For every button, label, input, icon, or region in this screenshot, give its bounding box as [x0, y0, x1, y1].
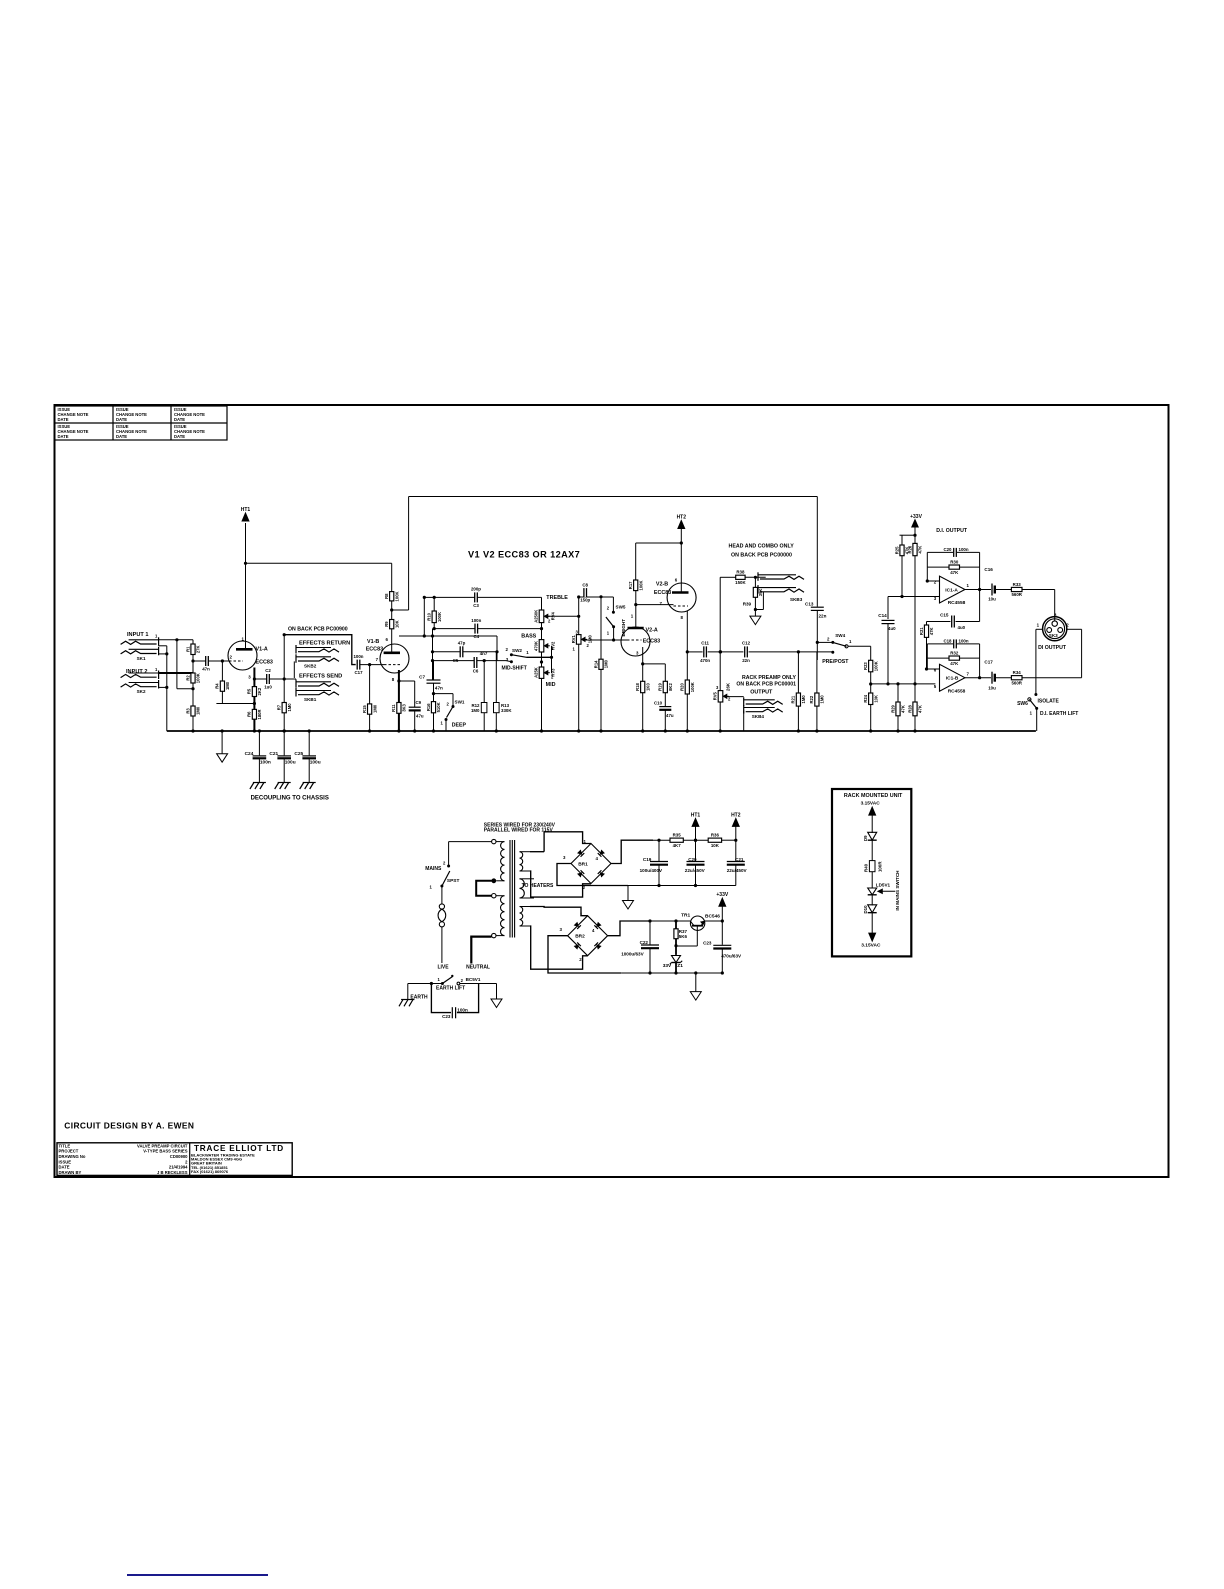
svg-text:C19: C19: [643, 857, 652, 862]
capacitor C23 output filter: [721, 921, 723, 945]
svg-text:200p: 200p: [471, 587, 481, 592]
wire V2-A cathode: [642, 647, 644, 664]
wire ground bus: [167, 730, 1036, 732]
valve V2-B ECC83: [667, 583, 696, 612]
svg-text:DATE: DATE: [174, 417, 185, 422]
resistor R30: [949, 565, 960, 569]
svg-text:INPUT 1: INPUT 1: [127, 632, 148, 638]
svg-text:R39: R39: [743, 602, 752, 607]
capacitor C21 decoupling: [277, 755, 291, 757]
jack SKB4 output: [744, 699, 775, 701]
svg-text:ECC83: ECC83: [366, 647, 383, 653]
svg-text:510K: 510K: [436, 702, 441, 712]
svg-text:EARTH LIFT: EARTH LIFT: [436, 986, 465, 992]
svg-text:47K: 47K: [918, 546, 923, 554]
wire C9 to bus: [414, 710, 416, 731]
wire cathode to C9: [399, 680, 415, 682]
capacitor C5: [460, 646, 463, 657]
wire top signal rail: [409, 496, 818, 498]
svg-text:SKB2: SKB2: [304, 663, 317, 668]
wire XLR pin1 to isolate: [1036, 628, 1043, 630]
capacitor C10: [659, 707, 671, 710]
capacitor C20 HT1 filter: [695, 840, 697, 861]
wire V1-A cathode (thick): [253, 668, 255, 687]
resistor R33: [1011, 587, 1022, 591]
wire HT2 stem to V2-B plate: [680, 529, 682, 593]
wire tone pot column: [541, 597, 543, 610]
svg-text:39K: 39K: [758, 589, 763, 597]
svg-text:C10: C10: [654, 701, 663, 706]
resistor R29: [896, 702, 900, 716]
arrow IN MAINS SWITCH: [879, 890, 895, 892]
svg-text:R17: R17: [628, 581, 633, 589]
capacitor C7: [427, 679, 441, 681]
svg-text:SK1: SK1: [137, 656, 146, 661]
wire C25 from bus: [308, 731, 310, 755]
resistor R36: [708, 838, 721, 842]
wire R19 to C10: [664, 693, 666, 707]
svg-text:47p: 47p: [458, 641, 466, 646]
svg-text:C23: C23: [703, 940, 712, 945]
svg-text:1K0: 1K0: [645, 683, 650, 691]
wire LED to D10: [871, 895, 873, 906]
wire TR1 emitter to +33V: [705, 920, 723, 922]
svg-text:DATE: DATE: [58, 434, 69, 439]
wire tone rail 1: [424, 596, 541, 598]
resistor R37: [674, 929, 678, 939]
wire HT1 rail to R8: [246, 562, 392, 564]
svg-text:100K: 100K: [690, 682, 695, 692]
capacitor C11: [704, 646, 707, 657]
svg-text:BR2: BR2: [575, 934, 585, 940]
resistor R35: [670, 838, 683, 842]
svg-text:A250K: A250K: [534, 610, 539, 623]
capacitor C13: [811, 607, 824, 610]
wire HT secondary to BR1 bottom: [530, 871, 591, 897]
capacitor C19 reservoir: [650, 861, 668, 863]
svg-text:SW1: SW1: [455, 700, 465, 705]
wire C14 column: [887, 597, 889, 620]
wire R20 to bus: [686, 694, 688, 731]
resistor R1: [191, 644, 195, 655]
chassis ground under C25: [303, 782, 316, 784]
svg-text:3.15VAC: 3.15VAC: [861, 801, 881, 807]
svg-text:OUTPUT: OUTPUT: [750, 690, 773, 696]
wire R13 column: [495, 652, 497, 703]
wire SK1 tip to R1: [159, 639, 193, 641]
wire tone rail 2: [433, 628, 542, 630]
svg-text:C21: C21: [735, 857, 744, 862]
svg-text:R31: R31: [919, 627, 924, 635]
wire V1-A anode to HT1 rail: [245, 523, 247, 649]
wire V1-B cathode thick: [398, 670, 400, 703]
svg-text:4K7: 4K7: [673, 843, 682, 848]
svg-text:47K: 47K: [918, 705, 923, 713]
svg-text:10K: 10K: [711, 843, 720, 848]
wire C7 column: [433, 661, 435, 680]
svg-text:IN MAINS SWITCH: IN MAINS SWITCH: [895, 870, 900, 911]
wire SW5 bottom: [613, 627, 615, 640]
wire LV ground rail: [621, 972, 722, 974]
wire input link vertical: [176, 640, 178, 689]
connector SK3 XLR DI output: [1043, 617, 1067, 641]
switch SW5 BRIGHT: [612, 611, 615, 614]
potentiometer RV4 treble: [539, 610, 544, 623]
wire TR1 base: [696, 926, 698, 946]
switch SW1 DEEP: [445, 718, 448, 721]
capacitor C20: [954, 548, 957, 557]
wire V2-A anode to R17: [635, 591, 637, 628]
svg-text:IC1-B: IC1-B: [946, 676, 959, 682]
svg-text:R1: R1: [185, 646, 190, 652]
resistor R17: [634, 580, 638, 591]
rack mounted unit box: [832, 789, 911, 956]
capacitor C12: [745, 646, 748, 657]
potentiometer RV5 26K: [718, 691, 723, 702]
resistor R26: [913, 543, 917, 555]
svg-text:4n7: 4n7: [480, 651, 488, 656]
svg-text:C21: C21: [269, 751, 278, 757]
svg-text:RACK PREAMP ONLY: RACK PREAMP ONLY: [742, 675, 796, 681]
jack SKB1: [296, 681, 331, 683]
svg-text:SW5: SW5: [616, 605, 626, 610]
transformer primary terminal 4: [492, 933, 496, 937]
svg-text:BC5V1: BC5V1: [466, 977, 481, 982]
wire R34 to XLR pin2: [1022, 677, 1082, 679]
svg-text:R3: R3: [185, 708, 190, 714]
resistor R21: [796, 693, 800, 706]
svg-text:R29: R29: [890, 704, 895, 712]
wire C19 column: [658, 840, 660, 861]
wire C16 to R33: [995, 589, 1012, 591]
svg-text:DI OUTPUT: DI OUTPUT: [1038, 645, 1067, 651]
jack SKB2: [296, 647, 331, 649]
wire R18 to bus: [642, 693, 644, 731]
wire C8 rail: [579, 596, 614, 598]
svg-text:C17: C17: [354, 670, 363, 675]
svg-text:R35: R35: [673, 833, 682, 838]
wire R12 column: [483, 661, 485, 703]
wire bias rail x915: [914, 556, 916, 702]
wire cathode node: [643, 663, 666, 665]
transformer primary terminal 2 junction: [491, 878, 496, 883]
wire R35 to R36: [683, 839, 708, 841]
wire R37 to zener: [675, 939, 677, 955]
svg-text:47u: 47u: [666, 713, 674, 718]
valve V1-B ECC83: [380, 644, 409, 673]
svg-text:R8: R8: [384, 593, 389, 599]
svg-text:RC4558: RC4558: [948, 689, 966, 695]
wire tone column x432: [432, 629, 434, 681]
power HT1 arrow psu: [692, 818, 699, 826]
wire R38 to SKB3: [745, 576, 766, 578]
svg-text:R6: R6: [247, 711, 252, 717]
power HT2 arrow psu: [732, 818, 739, 826]
svg-text:C24: C24: [245, 751, 254, 757]
svg-text:PROJECT: PROJECT: [59, 1149, 79, 1154]
wire R2-R3 column: [192, 683, 194, 706]
resistor R4: [220, 681, 224, 691]
wire V2-B grid to V2-A anode: [636, 604, 674, 606]
wire LV ground stem: [695, 973, 697, 992]
svg-text:V1-B: V1-B: [367, 639, 379, 645]
wire IC1-A plus input: [888, 596, 940, 598]
wire RV2 wiper tie: [551, 646, 553, 673]
transformer heater winding: [520, 879, 525, 898]
svg-text:5K6: 5K6: [679, 934, 688, 939]
drawing border frame: [55, 405, 1169, 1177]
svg-text:ON BACK PCB PC00001: ON BACK PCB PC00001: [736, 682, 796, 688]
wire head combo tap: [719, 577, 721, 731]
svg-text:DRAWING No: DRAWING No: [59, 1154, 86, 1159]
wire cathode node to C2: [254, 678, 266, 680]
svg-text:HT1: HT1: [691, 812, 701, 818]
svg-text:HEAD AND COMBO ONLY: HEAD AND COMBO ONLY: [729, 544, 795, 550]
svg-text:150p: 150p: [580, 598, 590, 603]
wire earth to lift switch: [407, 984, 409, 1000]
svg-text:HT2: HT2: [677, 515, 687, 521]
wire V1-B anode to R9: [391, 629, 393, 653]
svg-text:R22: R22: [809, 695, 814, 703]
svg-text:47u: 47u: [416, 714, 424, 719]
svg-text:C4: C4: [473, 634, 479, 639]
svg-text:1M0: 1M0: [225, 681, 230, 690]
op-amp IC1-B RC4558: [940, 664, 965, 691]
svg-text:22u/450V: 22u/450V: [727, 868, 748, 873]
wire C10 to bus: [664, 710, 666, 731]
svg-text:R30: R30: [950, 560, 959, 565]
svg-text:R38: R38: [736, 570, 745, 575]
svg-text:V2-A: V2-A: [646, 628, 658, 634]
transformer primary terminal 1: [492, 839, 496, 843]
svg-text:C11: C11: [701, 641, 709, 646]
svg-text:LD5V1: LD5V1: [876, 883, 891, 888]
wire IC1-B minus input: [927, 668, 940, 670]
svg-text:V2-B: V2-B: [656, 581, 668, 587]
wire RV5 wiper to SKB4: [727, 696, 744, 698]
svg-text:EFFECTS SEND: EFFECTS SEND: [299, 674, 342, 680]
svg-text:R21: R21: [791, 695, 796, 703]
svg-text:470u/63V: 470u/63V: [721, 953, 742, 958]
svg-text:22n: 22n: [819, 614, 827, 619]
transistor TR1 BC546: [690, 916, 704, 930]
svg-text:C12: C12: [742, 641, 751, 646]
wire R4 top to grid node: [221, 661, 223, 681]
wire C18 loop: [926, 644, 928, 658]
capacitor C16: [991, 584, 993, 596]
resistor R6: [252, 709, 256, 719]
wire R16 to bus: [433, 713, 435, 731]
wire SW1 to bus: [445, 720, 447, 732]
fuse FS1: [439, 904, 444, 909]
svg-text:CD00900: CD00900: [170, 1154, 188, 1159]
jack SKB3: [758, 574, 796, 576]
wire R8-R9 node to top rail riser: [392, 609, 409, 611]
wire RV4 wiper to RV1: [548, 615, 579, 617]
wire IC1-B output: [965, 677, 991, 679]
V2-A grid dash: [627, 639, 642, 641]
capacitor C17: [357, 660, 360, 670]
diode D9: [868, 832, 877, 840]
V2-B plate bar: [672, 591, 689, 594]
resistor R10: [432, 611, 436, 623]
V1-B grid dash: [384, 664, 400, 666]
svg-text:LIVE: LIVE: [437, 964, 449, 970]
resistor R38: [736, 575, 745, 579]
svg-text:SW2: SW2: [512, 648, 522, 653]
wire HT ground stem: [627, 886, 629, 901]
svg-text:27K: 27K: [196, 645, 201, 653]
svg-text:2K2: 2K2: [257, 687, 262, 695]
svg-text:INPUT 2: INPUT 2: [126, 669, 147, 675]
wire R12 to bus: [483, 713, 485, 731]
svg-text:47n: 47n: [435, 685, 443, 690]
LED LD5V1 symbol: [868, 888, 877, 895]
chassis ground under C24: [253, 782, 266, 784]
svg-text:NEUTRAL: NEUTRAL: [466, 964, 490, 970]
bridge rectifier BR1: [571, 844, 611, 884]
resistor R28: [913, 702, 917, 716]
capacitor C3: [475, 592, 478, 602]
svg-text:1M0: 1M0: [820, 695, 825, 704]
svg-text:100u: 100u: [310, 759, 321, 765]
chassis ground EARTH symbol: [401, 999, 414, 1001]
resistor R40: [869, 861, 875, 872]
wire R7 to bus: [283, 713, 285, 731]
svg-text:8K2: 8K2: [668, 683, 673, 691]
svg-text:CIRCUIT DESIGN BY A. EWEN: CIRCUIT DESIGN BY A. EWEN: [64, 1121, 194, 1131]
svg-text:ISSUE: ISSUE: [59, 1159, 72, 1164]
revision note table: [55, 406, 228, 440]
svg-text:D9: D9: [863, 835, 868, 841]
wire C2 to effects send: [269, 678, 296, 680]
power HT1: [242, 513, 249, 521]
wire neutral bold: [470, 937, 472, 963]
resistor R15: [368, 704, 372, 714]
svg-text:IC1-A: IC1-A: [945, 588, 958, 594]
capacitor C6: [474, 657, 477, 668]
svg-text:100n: 100n: [471, 618, 481, 623]
wire effects column with R7: [283, 635, 285, 703]
wire tone rail 3: [433, 651, 498, 653]
svg-text:C17: C17: [984, 660, 993, 665]
svg-text:MID-SHIFT: MID-SHIFT: [502, 666, 527, 672]
svg-text:100n: 100n: [353, 654, 363, 659]
svg-text:470n: 470n: [700, 658, 710, 663]
svg-text:TITLE: TITLE: [59, 1143, 71, 1148]
transformer primary terminal 3: [492, 894, 496, 898]
V1-A plate bar: [236, 648, 253, 651]
svg-text:1000u/63V: 1000u/63V: [621, 951, 644, 956]
V2-A plate bar: [628, 627, 644, 630]
svg-text:R24: R24: [863, 694, 868, 702]
wire C21 to chassis: [283, 758, 285, 782]
svg-text:R34: R34: [1013, 670, 1022, 675]
svg-text:47n: 47n: [202, 667, 210, 672]
svg-text:1M0: 1M0: [287, 703, 292, 712]
wire HT rail: [653, 839, 670, 841]
svg-text:D10: D10: [863, 905, 868, 914]
wire R4 bottom to cathode node: [221, 691, 223, 703]
svg-text:Z1: Z1: [677, 963, 683, 969]
wire R21 column: [797, 652, 799, 693]
wire BR1 minus to ground rail: [557, 864, 628, 886]
wire anode node horizontal: [399, 635, 497, 637]
capacitor C24 decoupling: [253, 755, 267, 757]
wire +33V node: [914, 527, 916, 543]
capacitor C8: [584, 588, 587, 597]
svg-text:26K: 26K: [726, 682, 731, 691]
svg-text:4u0: 4u0: [888, 626, 896, 631]
wire SW6 to bus: [1036, 708, 1038, 731]
svg-text:BR1: BR1: [578, 862, 588, 868]
resistor R12: [481, 703, 487, 713]
svg-text:560R: 560R: [1011, 680, 1022, 685]
wire C1 to V1-A grid: [208, 660, 228, 662]
svg-text:R9: R9: [384, 621, 389, 627]
switch SW mains SPST: [447, 865, 450, 868]
wire R29 column: [897, 684, 899, 702]
svg-text:100n: 100n: [959, 639, 969, 644]
wire C26 loop: [431, 984, 451, 1013]
svg-text:DATE: DATE: [174, 434, 185, 439]
diode D10: [868, 905, 877, 913]
wire tone column x497: [496, 636, 498, 661]
svg-text:1M0: 1M0: [604, 659, 609, 668]
wire R5-R6 column thick: [253, 697, 255, 710]
wire switch to fuse: [441, 886, 443, 904]
svg-text:R36: R36: [711, 833, 720, 838]
wire SW5 top: [612, 597, 614, 612]
wire effects return feed: [284, 635, 356, 665]
svg-text:SK3: SK3: [1049, 633, 1058, 638]
wire jack sleeve ground column: [159, 645, 167, 647]
svg-text:R33: R33: [1013, 582, 1022, 587]
potentiometer RV3 mid: [539, 667, 544, 678]
svg-text:470K: 470K: [534, 641, 539, 651]
wire C21 from bus: [283, 731, 285, 755]
svg-text:100u: 100u: [285, 759, 296, 765]
svg-text:C18: C18: [943, 639, 952, 644]
resistor R14: [599, 659, 603, 669]
resistor R34: [1011, 676, 1022, 680]
svg-text:MID: MID: [546, 682, 556, 688]
wire C13 column: [816, 497, 818, 607]
svg-text:MAINS: MAINS: [425, 866, 442, 872]
wire SW2 common to wiper tie: [527, 656, 552, 658]
wire R8 top to HT1 rail: [391, 563, 393, 591]
ground triangle HT: [623, 901, 634, 910]
svg-text:SKB1: SKB1: [304, 697, 317, 702]
svg-text:180R: 180R: [257, 709, 262, 719]
svg-text:SKB3: SKB3: [790, 597, 803, 602]
valve V2-A ECC83: [621, 627, 650, 656]
svg-text:47K: 47K: [929, 627, 934, 635]
switch SW6 ISOLATE: [1034, 693, 1037, 696]
resistor R7: [282, 703, 286, 713]
transformer primary winding 2: [496, 895, 505, 897]
svg-text:SKB4: SKB4: [752, 714, 765, 719]
svg-text:22n: 22n: [742, 658, 750, 663]
wire R25 to non-inv A: [901, 556, 903, 597]
resistor R25: [900, 545, 904, 556]
wire R19 column: [664, 664, 666, 681]
svg-text:560R: 560R: [1011, 592, 1022, 597]
svg-text:C6: C6: [473, 669, 479, 674]
wire LV secondary to BR2 bottom: [530, 926, 588, 969]
wire C24 from bus: [258, 731, 260, 755]
svg-text:1M0: 1M0: [471, 708, 480, 713]
